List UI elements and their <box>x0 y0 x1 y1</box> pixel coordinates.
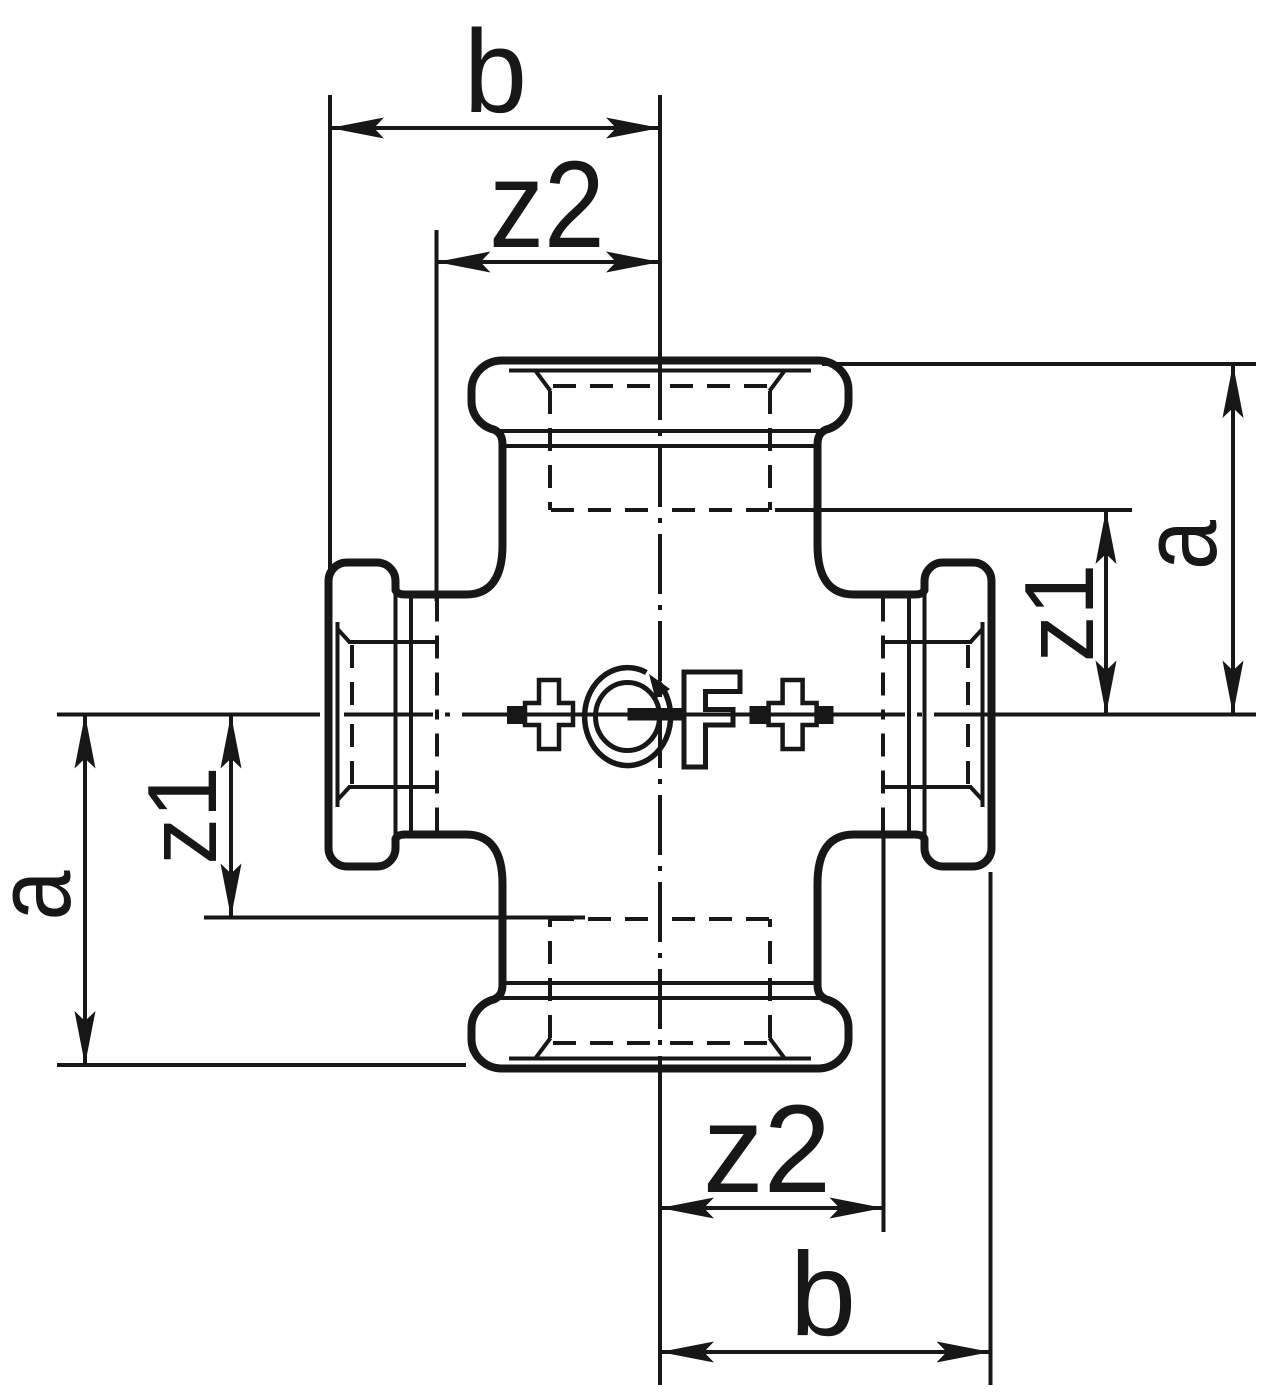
G wedge serif <box>649 674 670 699</box>
dimension: z1 left <box>204 715 585 918</box>
dimension: b top <box>330 95 660 588</box>
svg-text:z1: z1 <box>1005 564 1115 662</box>
fitting body: four mirrored quadrants <box>329 361 661 715</box>
dimension: z2 top <box>437 230 661 601</box>
G inner ring <box>596 683 660 751</box>
dimension: b bottom <box>660 872 991 1385</box>
plus left <box>525 680 573 749</box>
svg-text:b: b <box>464 5 527 138</box>
plus right <box>769 680 817 749</box>
centerline through logo <box>507 713 833 717</box>
svg-text:z1: z1 <box>128 766 238 864</box>
dimension: z2 bottom <box>660 838 884 1232</box>
+GF+ logo <box>507 668 834 767</box>
dimension: a left <box>57 715 466 1066</box>
dimension: a right <box>822 364 1256 715</box>
dimension: z1 right <box>775 510 1132 715</box>
svg-text:a: a <box>1120 520 1239 570</box>
horizontal centerline <box>57 713 1256 717</box>
fat dash middle right <box>750 706 768 724</box>
svg-text:z2: z2 <box>703 1080 831 1219</box>
fat dash right <box>818 706 834 724</box>
vertical centerline <box>658 95 662 1385</box>
F outline <box>684 672 740 767</box>
fat dash left <box>507 706 526 724</box>
G outer ring <box>585 668 671 766</box>
G bar <box>628 708 684 721</box>
svg-text:b: b <box>790 1228 856 1361</box>
svg-text:a: a <box>0 870 93 920</box>
svg-text:z2: z2 <box>489 136 605 273</box>
